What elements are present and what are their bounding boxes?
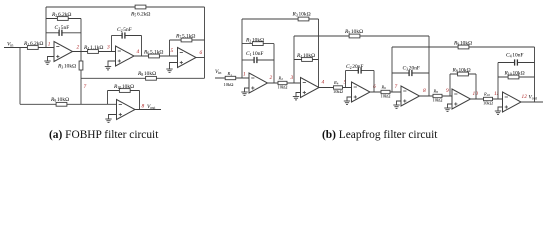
resistor R6 xyxy=(381,90,390,93)
wire xyxy=(109,115,117,120)
svg-text:6: 6 xyxy=(373,84,376,90)
svg-text:2: 2 xyxy=(270,75,273,81)
svg-text:1: 1 xyxy=(48,42,51,48)
wire xyxy=(141,36,143,57)
svg-text:C110nF: C110nF xyxy=(246,51,263,57)
ground A2 xyxy=(293,97,299,100)
wire xyxy=(293,36,295,83)
resistor R3 xyxy=(79,61,83,70)
wire xyxy=(45,7,47,48)
wire xyxy=(420,95,453,97)
svg-text:R1010kΩ: R1010kΩ xyxy=(113,84,134,90)
wire xyxy=(169,40,171,56)
resistor R7 xyxy=(181,38,192,42)
svg-text:3: 3 xyxy=(106,45,110,51)
capacitor C3 (b) xyxy=(392,70,429,76)
wire xyxy=(80,19,82,105)
wire xyxy=(111,36,113,52)
svg-text:C320nF: C320nF xyxy=(403,66,420,72)
wire xyxy=(73,51,116,53)
svg-text:R1010kΩ: R1010kΩ xyxy=(504,71,525,77)
svg-text:R910kΩ: R910kΩ xyxy=(50,97,69,103)
wire xyxy=(370,91,401,93)
svg-text:R410kΩ: R410kΩ xyxy=(296,53,315,59)
resistor R4 fb xyxy=(302,58,313,62)
svg-text:R810kΩ: R810kΩ xyxy=(452,68,471,74)
wire xyxy=(373,71,375,93)
resistor R3 rail xyxy=(298,17,309,21)
resistor R8 xyxy=(146,76,157,80)
resistor R9 xyxy=(56,102,67,106)
op-amp A2 xyxy=(301,78,320,98)
svg-text:10kΩ: 10kΩ xyxy=(224,82,235,87)
op-amp U1 xyxy=(54,42,73,62)
ground A5 xyxy=(444,108,450,111)
svg-text:1: 1 xyxy=(243,72,246,78)
resistor R2 xyxy=(57,17,68,21)
wire xyxy=(497,63,499,100)
svg-text:4: 4 xyxy=(137,49,140,55)
svg-text:R310kΩ: R310kΩ xyxy=(292,12,311,18)
svg-text:9: 9 xyxy=(446,88,449,94)
svg-text:Vin: Vin xyxy=(7,42,13,48)
resistor R4 xyxy=(334,86,343,89)
wire xyxy=(245,88,250,92)
op-amp A1 xyxy=(249,73,268,93)
resistor R10 xyxy=(119,89,130,93)
svg-text:4: 4 xyxy=(322,80,325,86)
svg-text:2: 2 xyxy=(77,45,80,51)
svg-text:R810kΩ: R810kΩ xyxy=(137,71,156,77)
svg-text:7: 7 xyxy=(84,84,87,90)
svg-text:R2: R2 xyxy=(278,75,284,81)
svg-text:R8: R8 xyxy=(433,88,439,94)
svg-text:10kΩ: 10kΩ xyxy=(381,94,392,99)
wire xyxy=(268,82,301,84)
op-amp U4 xyxy=(117,100,136,120)
resistor R10 xyxy=(484,97,493,100)
capacitor C1 (b) xyxy=(242,57,274,63)
wire xyxy=(48,57,55,62)
wire xyxy=(108,90,140,92)
svg-text:3: 3 xyxy=(290,75,294,81)
svg-text:10kΩ: 10kΩ xyxy=(433,98,444,103)
svg-text:R4: R4 xyxy=(333,80,339,86)
svg-text:5: 5 xyxy=(171,48,174,54)
svg-text:Vout: Vout xyxy=(147,104,156,110)
wire xyxy=(19,48,21,105)
svg-text:(a) FOBHP filter circuit: (a) FOBHP filter circuit xyxy=(49,129,159,141)
svg-text:R75.1kΩ: R75.1kΩ xyxy=(175,34,195,40)
wire xyxy=(273,44,275,83)
op-amp U3 xyxy=(178,48,197,68)
capacitor C2 xyxy=(112,32,142,38)
resistor R6 xyxy=(149,54,160,58)
wire xyxy=(139,91,141,110)
resistor R5 xyxy=(135,5,146,9)
wire xyxy=(521,101,543,103)
svg-text:R210kΩ: R210kΩ xyxy=(245,38,264,44)
capacitor C4 (b) xyxy=(498,59,535,65)
ground A4 xyxy=(393,105,399,108)
ground U3 xyxy=(166,69,172,72)
wire xyxy=(345,71,347,88)
svg-text:C410nF: C410nF xyxy=(506,53,523,59)
wire xyxy=(170,63,178,70)
wire xyxy=(196,57,205,59)
ground U1 xyxy=(44,61,50,64)
ground A1 xyxy=(241,92,247,95)
wire xyxy=(46,18,81,20)
resistor R8 fb xyxy=(458,72,469,76)
svg-text:R41.1kΩ: R41.1kΩ xyxy=(83,45,103,51)
ground U2 xyxy=(105,67,111,70)
wire xyxy=(294,59,319,61)
wire xyxy=(46,6,205,8)
resistor R4 xyxy=(88,50,99,54)
svg-text:(b) Leapfrog filter circuit: (b) Leapfrog filter circuit xyxy=(322,129,438,141)
svg-text:10kΩ: 10kΩ xyxy=(333,89,344,94)
op-amp A6 xyxy=(503,92,522,112)
wire xyxy=(475,74,477,99)
op-amp A4 xyxy=(401,86,420,106)
wire xyxy=(319,87,352,89)
wire xyxy=(242,18,319,20)
svg-text:10kΩ: 10kΩ xyxy=(483,101,494,106)
wire xyxy=(242,43,274,45)
wire xyxy=(241,19,243,78)
wire xyxy=(20,103,117,105)
svg-text:6: 6 xyxy=(200,50,203,56)
resistor R8 xyxy=(433,94,442,97)
op-amp A5 xyxy=(452,89,471,109)
resistor R2 fb xyxy=(252,42,263,46)
wire xyxy=(428,36,430,96)
svg-text:7: 7 xyxy=(395,84,398,90)
resistor R2 xyxy=(278,81,287,84)
wire xyxy=(397,101,402,105)
wire xyxy=(471,98,503,100)
svg-text:R910kΩ: R910kΩ xyxy=(453,41,472,47)
svg-text:R56.2kΩ: R56.2kΩ xyxy=(130,12,150,18)
svg-text:C25nF: C25nF xyxy=(117,27,132,33)
wire xyxy=(4,47,54,49)
svg-text:R6: R6 xyxy=(381,84,387,90)
wire xyxy=(296,93,301,97)
op-amp A3 xyxy=(352,82,371,102)
svg-text:R10: R10 xyxy=(483,91,490,97)
wire xyxy=(108,61,116,67)
wire xyxy=(448,104,453,108)
wire xyxy=(170,39,205,41)
svg-text:11: 11 xyxy=(494,91,499,97)
svg-text:Vin: Vin xyxy=(215,69,221,75)
wire xyxy=(294,35,429,37)
ground A3 xyxy=(344,101,350,104)
resistor R1 xyxy=(27,46,38,50)
wire xyxy=(391,47,393,92)
wire xyxy=(498,107,503,111)
svg-text:10: 10 xyxy=(473,91,479,97)
op-amp U2 xyxy=(116,46,135,66)
svg-text:R310kΩ: R310kΩ xyxy=(57,64,76,70)
wire xyxy=(392,46,535,48)
wire xyxy=(204,7,206,78)
wire xyxy=(318,19,320,88)
ground A6 xyxy=(495,111,501,114)
wire xyxy=(215,77,249,79)
svg-text:12: 12 xyxy=(522,94,528,100)
wire xyxy=(135,109,161,111)
resistor R9 rail xyxy=(458,45,469,49)
svg-text:5: 5 xyxy=(344,80,347,86)
svg-text:8: 8 xyxy=(423,88,426,94)
wire xyxy=(534,47,536,102)
wire xyxy=(449,74,451,96)
resistor R10 fb xyxy=(508,75,519,79)
svg-text:R26.2kΩ: R26.2kΩ xyxy=(51,12,71,18)
svg-text:R65.1kΩ: R65.1kΩ xyxy=(143,50,163,56)
svg-text:Vout: Vout xyxy=(529,95,538,101)
capacitor C2 (b) xyxy=(346,67,375,73)
wire xyxy=(347,97,352,101)
wire xyxy=(134,55,178,57)
resistor Ra xyxy=(225,76,236,79)
capacitor C1 xyxy=(46,30,81,36)
ground U4 xyxy=(105,119,111,122)
wire xyxy=(450,73,476,75)
resistor R5 rail xyxy=(349,34,360,38)
svg-text:R510kΩ: R510kΩ xyxy=(344,29,363,35)
wire xyxy=(81,77,205,79)
wire xyxy=(107,91,109,105)
svg-text:10kΩ: 10kΩ xyxy=(278,85,289,90)
wire xyxy=(498,76,535,78)
svg-text:8: 8 xyxy=(142,104,145,110)
